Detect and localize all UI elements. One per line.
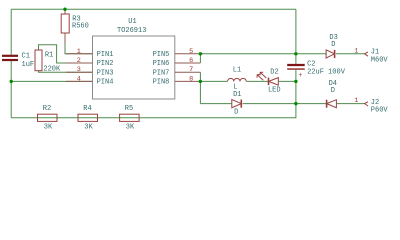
svg-text:R1: R1 (45, 52, 53, 60)
diode D4 (327, 100, 337, 108)
connector J1 open pin glyph (365, 52, 368, 56)
svg-text:PIN3: PIN3 (97, 69, 114, 77)
svg-text:C1: C1 (22, 53, 30, 61)
wire pin7 vertical link (199, 72, 201, 81)
junction right bus D3 row (294, 52, 297, 55)
svg-text:L1: L1 (233, 67, 241, 75)
svg-text:D: D (331, 41, 335, 49)
svg-text:R4: R4 (83, 105, 91, 113)
svg-text:2: 2 (77, 57, 81, 65)
wire left bus lower (10, 61, 12, 118)
svg-text:PIN1: PIN1 (97, 51, 114, 59)
wire right bus top (295, 9, 297, 54)
wire right bus mid (295, 81, 297, 103)
svg-text:D2: D2 (270, 69, 278, 77)
wire left bus upper (10, 9, 12, 55)
wire bottom rail (11, 104, 296, 118)
svg-text:PIN4: PIN4 (97, 79, 114, 87)
capacitor C2 (287, 64, 305, 66)
svg-text:6: 6 (189, 57, 193, 65)
junction R3 top (63, 8, 66, 11)
svg-text:8: 8 (189, 75, 193, 83)
wire L1 to LED (247, 80, 269, 82)
svg-text:1uF: 1uF (22, 61, 35, 69)
connector J2 open pin glyph (365, 102, 368, 106)
wire D4 to J2 (337, 103, 365, 105)
resistor R3 (64, 9, 66, 14)
svg-text:D: D (331, 87, 335, 95)
svg-text:220K: 220K (43, 66, 61, 74)
svg-text:TO26913: TO26913 (117, 27, 146, 35)
junction right bus D1 row (294, 102, 297, 105)
svg-text:1: 1 (354, 48, 358, 56)
junction pin5/pin6 (199, 52, 202, 55)
U1 pin stub 1 (66, 53, 93, 55)
wire C2 bottom stub (295, 70, 297, 81)
svg-text:+: + (298, 72, 302, 80)
svg-text:PIN6: PIN6 (153, 60, 170, 68)
inductor L1 (228, 78, 247, 81)
wire right bus to D4 (296, 103, 326, 105)
svg-text:5: 5 (189, 48, 193, 56)
svg-text:3K: 3K (44, 124, 53, 132)
svg-text:1: 1 (77, 48, 81, 56)
svg-text:1: 1 (354, 97, 358, 105)
svg-text:22uF 100V: 22uF 100V (307, 69, 346, 77)
svg-text:P60V: P60V (371, 106, 389, 114)
resistor R2 (38, 114, 58, 121)
U1 pin stub 3 (66, 71, 93, 73)
svg-text:D: D (234, 109, 238, 117)
resistor R1 (35, 50, 42, 71)
wire LED to right bus (279, 80, 296, 82)
svg-text:7: 7 (189, 66, 193, 74)
U1 pin stub 2 (66, 62, 93, 64)
wire pin8 row to L1 (200, 80, 227, 82)
wire pin2 net R1 hook (39, 45, 93, 63)
U1 pin stub 5 (175, 53, 201, 55)
capacitor C1 (2, 55, 18, 57)
svg-text:D1: D1 (233, 91, 241, 99)
wire D1 to right bus (243, 103, 296, 105)
svg-text:3K: 3K (84, 124, 93, 132)
svg-text:M60V: M60V (371, 56, 389, 64)
svg-text:LED: LED (268, 86, 281, 94)
U1 pin stub 7 (175, 71, 201, 73)
svg-text:PIN5: PIN5 (153, 51, 170, 59)
wire D1 row left (200, 103, 231, 105)
wire D3 to J1 (336, 53, 365, 55)
wire pin3 net (39, 71, 93, 73)
wire pin6 vertical link (199, 54, 201, 63)
junction right bus LED row (294, 80, 297, 83)
svg-text:R560: R560 (72, 22, 89, 30)
op-amp U1 box (93, 36, 175, 99)
U1 pin stub 4 (66, 80, 93, 82)
svg-text:PIN8: PIN8 (153, 79, 170, 87)
junction left bus pin4 (10, 80, 13, 83)
U1 pin stub 6 (175, 62, 201, 64)
wire top rail (11, 8, 296, 10)
U1 pin stub 8 (175, 80, 201, 82)
svg-text:PIN2: PIN2 (97, 60, 114, 68)
diode D3 (326, 50, 335, 58)
svg-text:C2: C2 (307, 61, 315, 69)
junction pin7/pin8 (199, 80, 202, 83)
wire C2 top stub (295, 54, 297, 64)
wire pin5 row to D3 (200, 53, 326, 55)
diode D1 (232, 100, 242, 108)
svg-text:U1: U1 (128, 18, 136, 26)
svg-text:R2: R2 (43, 105, 51, 113)
svg-text:4: 4 (77, 75, 81, 83)
LED D2 (257, 72, 278, 85)
wire pin4 net (11, 80, 92, 82)
svg-text:PIN7: PIN7 (153, 69, 170, 77)
wire pin1 net from R3 lead (65, 43, 93, 54)
svg-text:R5: R5 (125, 105, 133, 113)
svg-text:3K: 3K (126, 124, 135, 132)
resistor R4 (78, 114, 98, 121)
wire D1 branch vertical (199, 81, 201, 103)
svg-text:3: 3 (77, 66, 81, 74)
resistor R5 (120, 114, 140, 121)
